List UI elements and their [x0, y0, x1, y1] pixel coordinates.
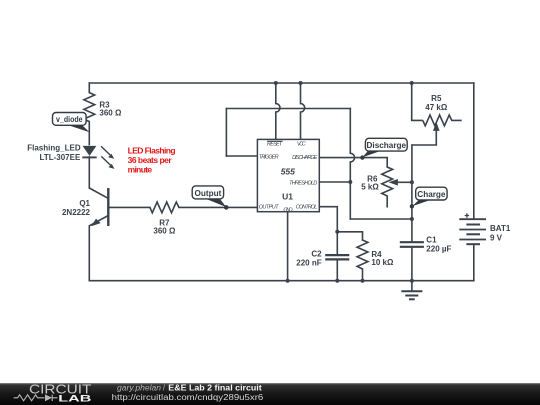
wire LED cathode to collector [88, 157, 90, 188]
svg-text:v_diode: v_diode [56, 115, 83, 124]
resistor R7 [150, 202, 179, 236]
wire DISCHARGE pin to R6 [319, 158, 387, 167]
svg-text:220 µF: 220 µF [426, 245, 451, 254]
svg-text:BAT1: BAT1 [490, 224, 511, 233]
battery BAT1 [459, 213, 486, 244]
node dot charge callout [410, 204, 414, 208]
svg-text:http://circuitlab.com/cndqy289: http://circuitlab.com/cndqy289u5xr6 [112, 392, 264, 402]
resistor R3 [84, 93, 122, 122]
node label v_diode [53, 113, 90, 133]
node dot R4 bottom [361, 279, 365, 283]
svg-text:CONTROL: CONTROL [296, 205, 318, 211]
svg-text:220 nF: 220 nF [296, 259, 321, 268]
annotation red text [128, 145, 176, 174]
wire battery bottom lead [473, 244, 475, 281]
node dot R6 wiper [410, 180, 414, 184]
wire charge node vertical [411, 145, 413, 242]
svg-text:R5: R5 [431, 94, 442, 103]
wire trigger net horizontal [226, 108, 350, 110]
svg-text:LED Flashing: LED Flashing [128, 145, 176, 155]
LED Flashing_LED [27, 143, 114, 169]
wire top rail [89, 82, 474, 84]
node dot ground junction [410, 279, 414, 283]
wire CONTROL pin [319, 207, 337, 232]
svg-text:9 V: 9 V [490, 233, 503, 242]
node dot threshold-charge junction [410, 217, 414, 221]
wire C2 bottom lead [336, 259, 338, 280]
svg-text:Discharge: Discharge [367, 141, 407, 150]
footer bar [0, 383, 540, 405]
logo squiggle resistor and diode [14, 395, 58, 401]
node dot reset rail [274, 81, 278, 85]
wire R3 top lead [88, 83, 90, 93]
wire bottom rail [89, 280, 474, 282]
svg-text:DISCHARGE: DISCHARGE [292, 155, 318, 161]
wire GND pin [287, 212, 289, 281]
svg-text:2N2222: 2N2222 [62, 208, 91, 217]
svg-text:360 Ω: 360 Ω [99, 109, 122, 118]
svg-text:minute: minute [128, 165, 153, 175]
svg-text:RESET: RESET [267, 142, 283, 148]
capacitor C1 [400, 235, 452, 253]
node dot control junction [335, 230, 339, 234]
svg-text:THRESHOLD: THRESHOLD [289, 180, 317, 186]
wire trigger net down with hop [350, 109, 354, 220]
wire battery top lead [473, 83, 475, 219]
svg-text:Charge: Charge [417, 190, 446, 199]
node label Discharge [363, 138, 408, 157]
wire RESET pin with hop [276, 83, 280, 139]
ground [401, 281, 422, 300]
wire C2 top lead [336, 232, 338, 255]
wire R4 bottom lead [362, 269, 364, 281]
node dot vcc rail [299, 81, 303, 85]
wire emitter to bottom rail [88, 226, 90, 281]
svg-text:C2: C2 [311, 249, 322, 258]
wire R7 to OUTPUT pin [179, 206, 258, 208]
svg-text:LAB: LAB [58, 393, 91, 404]
node dot threshold junction [348, 180, 352, 184]
node dot gnd pin bottom [286, 279, 290, 283]
svg-text:Output: Output [194, 189, 221, 198]
svg-text:VCC: VCC [297, 142, 306, 148]
wire THRESHOLD pin [319, 181, 350, 183]
svg-text:U1: U1 [282, 192, 293, 202]
svg-text:360 Ω: 360 Ω [153, 227, 176, 236]
node dot C2 bottom [335, 279, 339, 283]
node label Charge [412, 187, 447, 206]
svg-text:36 beats per: 36 beats per [128, 155, 173, 165]
wire base to R7 [108, 206, 150, 208]
capacitor C2 [296, 249, 349, 267]
svg-text:LTL-307EE: LTL-307EE [40, 153, 81, 162]
wire TRIGGER pin stub [226, 155, 257, 157]
svg-text:Q1: Q1 [79, 199, 90, 208]
svg-text:TRIGGER: TRIGGER [259, 154, 279, 160]
node dot R5 rail [410, 81, 414, 85]
resistor R5 rheostat [412, 83, 462, 145]
resistor R6 rheostat [361, 167, 412, 208]
svg-text:OUTPUT: OUTPUT [259, 205, 280, 211]
wire trigger net up [225, 109, 227, 157]
wire VCC pin with hop [301, 83, 305, 139]
node label Output [192, 186, 228, 210]
svg-text:5 kΩ: 5 kΩ [361, 183, 379, 192]
svg-text:GND: GND [283, 207, 292, 213]
wire R4 branch [337, 232, 362, 240]
svg-text:C1: C1 [426, 235, 437, 244]
svg-text:555: 555 [281, 166, 295, 176]
svg-text:10 kΩ: 10 kΩ [371, 258, 394, 267]
node dot discharge [360, 155, 364, 159]
IC U1 555 [257, 139, 319, 213]
wire R3 to LED [88, 122, 90, 145]
wire C1 bottom lead [411, 247, 413, 281]
wire threshold to charge node [350, 218, 412, 220]
svg-text:47 kΩ: 47 kΩ [425, 103, 448, 112]
svg-text:Flashing_LED: Flashing_LED [27, 143, 81, 152]
resistor R4 [357, 240, 394, 269]
transistor Q1 [62, 188, 108, 226]
